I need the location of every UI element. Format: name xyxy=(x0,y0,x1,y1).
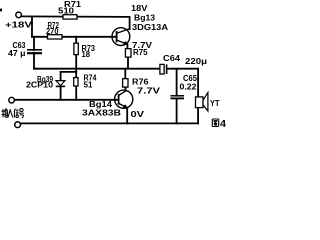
wire top rail xyxy=(21,15,129,18)
wire C65 bottom leg xyxy=(176,99,178,124)
svg-text:3DG13A: 3DG13A xyxy=(132,22,168,32)
wire bottom ground rail xyxy=(20,122,198,124)
svg-text:47 μ: 47 μ xyxy=(8,48,26,58)
resistor R71 xyxy=(63,15,77,19)
svg-text:3AX83B: 3AX83B xyxy=(82,108,121,118)
svg-text:7.7V: 7.7V xyxy=(137,86,160,96)
svg-text:+18V: +18V xyxy=(5,20,32,30)
terminal +18V xyxy=(16,12,22,18)
terminal input upper xyxy=(9,97,15,103)
svg-text:R75: R75 xyxy=(133,47,148,57)
speaker YT xyxy=(196,97,204,108)
transistor Q2 Bg14 xyxy=(115,90,133,108)
resistor R74 xyxy=(74,78,78,86)
svg-text:Bg13: Bg13 xyxy=(134,12,155,22)
wire mid rail left of C64 xyxy=(34,68,160,70)
wire diode branch horizontal xyxy=(61,71,77,73)
svg-text:0.22: 0.22 xyxy=(180,82,197,92)
wire junction vertical from +18V rail xyxy=(31,17,33,37)
resistor R73 xyxy=(74,43,78,54)
svg-text:C64: C64 xyxy=(163,53,180,63)
wire diode bottom leg xyxy=(60,86,62,100)
wire R73-R74 chain through mid rail xyxy=(75,54,77,77)
wire input signal line xyxy=(14,99,118,101)
wire R74 bottom leg xyxy=(75,86,77,100)
capacitor C64 xyxy=(160,64,164,74)
resistor R72 xyxy=(48,35,63,39)
wire C63 top leg xyxy=(33,37,35,50)
transistor Q1 Bg13 xyxy=(112,28,130,46)
wire Bg14 collector drop xyxy=(126,108,128,124)
svg-text:270: 270 xyxy=(46,26,59,36)
label input signal CJK hand-drawn xyxy=(2,109,24,118)
wire R76 bottom to Bg14 xyxy=(125,87,127,91)
wire mid rail right of C64 xyxy=(167,68,198,70)
wire C63 bottom leg and corner xyxy=(34,53,36,69)
resistor R75 xyxy=(125,49,131,57)
wire diode top leg xyxy=(60,72,62,81)
svg-text:4: 4 xyxy=(220,119,226,130)
char ru xyxy=(8,109,13,118)
svg-text:18: 18 xyxy=(82,49,91,59)
char hao xyxy=(19,109,24,118)
wire speaker bottom leg xyxy=(197,107,199,123)
wire R76 top leg xyxy=(124,69,126,79)
wire R73 top leg xyxy=(75,37,77,44)
svg-text:510: 510 xyxy=(58,6,74,16)
capacitor C63 plates xyxy=(27,49,42,51)
wire collector drop Bg13 xyxy=(129,17,131,29)
char xin xyxy=(14,109,18,118)
svg-text:0V: 0V xyxy=(131,109,145,119)
capacitor C65 plates xyxy=(171,95,185,97)
wire speaker top drop xyxy=(197,69,199,98)
diode Bg39 xyxy=(56,81,65,86)
label figure 4 CJK xyxy=(212,119,218,127)
char shu xyxy=(2,109,8,118)
svg-text:220μ: 220μ xyxy=(185,56,207,66)
wire R75 bottom to mid rail xyxy=(127,57,129,69)
wire base rail to Bg13 xyxy=(32,36,117,38)
resistor R76 xyxy=(123,79,128,87)
terminal input lower xyxy=(15,122,21,128)
wire C65 top leg xyxy=(176,69,178,96)
svg-text:2CP10: 2CP10 xyxy=(26,80,53,90)
scan tick mark top-left xyxy=(0,9,2,12)
wire Bg13 emitter vertical xyxy=(126,44,128,49)
svg-text:51: 51 xyxy=(84,80,93,90)
svg-text:YT: YT xyxy=(210,98,220,108)
